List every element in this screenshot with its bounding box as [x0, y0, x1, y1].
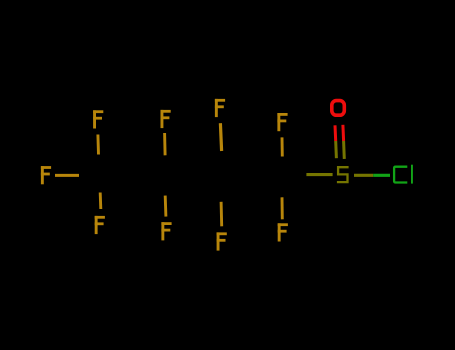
atom O (sulfinyl oxygen) [332, 101, 345, 116]
atom F left (on CF3 carbon C1) [41, 166, 51, 184]
bond C1-F(bottom) gold half [99, 193, 103, 210]
bond C3-F(bottom) gold half [220, 202, 223, 227]
atom F top of C3 [215, 99, 225, 117]
atom F bottom of C2 [161, 222, 171, 240]
atom F top of C1 [93, 110, 103, 128]
atom F bottom of C4 [278, 223, 288, 241]
bond C4-F(bottom) gold half [281, 197, 284, 219]
bond C2-F(top) gold half [163, 133, 166, 155]
atom F top of C2 [161, 110, 171, 128]
bond C4-S (olive half near S) [306, 173, 332, 176]
bond S-Cl olive half near S [354, 174, 373, 177]
atom S (sulfinyl sulfur, angular glyph) [337, 167, 349, 182]
atom Cl chlorine: letter C (angular) [394, 167, 407, 183]
double bond S=O right line: red half near O, olive half near S [341, 125, 345, 141]
double bond S=O left line: red half near O, olive half near S [334, 125, 338, 141]
bond C4-F(top) gold half [281, 137, 284, 156]
bond F(left)-C1 (gold half) [55, 174, 79, 177]
bond S-Cl green half near Cl [373, 174, 390, 177]
bond C3-F(top) gold half [220, 123, 221, 151]
atom F bottom of C1 [95, 216, 105, 234]
atom F top of C4 [277, 113, 287, 131]
bond C1-F(top) gold half [96, 135, 99, 155]
atom F bottom of C3 [217, 232, 227, 250]
atom Cl chlorine: letter l [411, 165, 413, 184]
bond C2-F(bottom) gold half [164, 196, 168, 217]
